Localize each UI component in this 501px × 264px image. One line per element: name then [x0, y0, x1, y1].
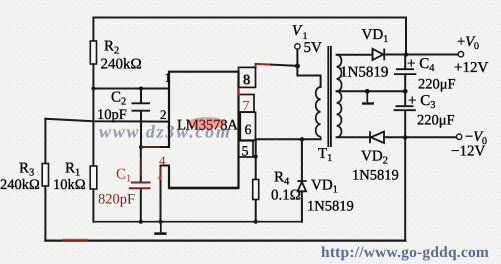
transformer T1 secondary winding upper	[337, 55, 342, 92]
svg-text:+12V: +12V	[454, 60, 488, 76]
node R4 ground junction	[254, 220, 258, 224]
wire pin1 node down to R1	[92, 89, 94, 167]
wire VD2 to -V0 terminal	[384, 136, 456, 138]
pin 5 box	[239, 141, 254, 157]
red artifact near pin4	[158, 176, 161, 179]
svg-text:−12V: −12V	[451, 144, 485, 160]
svg-text:1N5819: 1N5819	[340, 65, 388, 81]
capacitor C3	[394, 106, 416, 110]
svg-text:1N5819: 1N5819	[352, 168, 399, 184]
pin 8 box	[239, 67, 256, 87]
wire C3 bottom to -V0 wire	[404, 111, 406, 138]
red artifact pin8 corner	[256, 64, 271, 67]
red artifact C1 lead	[140, 158, 142, 176]
ground symbol (mid-tap)	[362, 91, 374, 103]
wire top rail right drop	[405, 18, 407, 55]
red artifact pin4 wire	[160, 167, 162, 180]
red artifact bottom rail smudge	[62, 239, 88, 241]
terminal V1	[295, 44, 300, 49]
IC U1 LM3578A box	[169, 72, 239, 188]
svg-text:8: 8	[243, 73, 250, 88]
wire R4 to ground rail	[255, 200, 257, 222]
node mid-tap junction	[403, 89, 408, 94]
wire C2 top lead	[140, 89, 142, 103]
wire C3 top lead	[404, 91, 406, 105]
node pin4 ground junction	[159, 220, 163, 224]
node C1 ground junction	[139, 220, 143, 224]
wire input node to primary top	[297, 76, 320, 88]
wire primary bottom	[320, 137, 322, 140]
wire top-left drop to R2	[92, 18, 94, 42]
svg-text:10kΩ: 10kΩ	[53, 177, 86, 193]
wire pin 5 stub	[253, 156, 256, 158]
node mid-tap ground junction	[365, 89, 370, 94]
wire output return drop	[404, 137, 406, 240]
node OSC junction	[139, 145, 143, 149]
svg-text:240kΩ: 240kΩ	[101, 57, 142, 73]
diode VD3	[373, 49, 385, 61]
node pin5 junction	[254, 155, 258, 159]
svg-text:10pF: 10pF	[97, 107, 127, 123]
wire pin 3	[141, 146, 169, 148]
node +12V junction	[404, 52, 408, 56]
svg-text:220μF: 220μF	[418, 77, 456, 93]
wire pin 1	[93, 88, 169, 90]
node -V0 junction	[403, 135, 407, 139]
transformer T1 secondary winding lower	[337, 91, 342, 137]
svg-text:http://www.go-gddq.com: http://www.go-gddq.com	[321, 244, 489, 261]
red mark on LM3578A	[188, 117, 226, 129]
wire pin 6 to primary bottom	[256, 138, 321, 140]
pin 7 box	[239, 95, 255, 113]
wire C2 bottom to OSC node	[140, 112, 142, 147]
svg-text:220μF: 220μF	[417, 113, 455, 129]
wire bottom rail	[45, 240, 405, 242]
wire R3 to bottom rail	[44, 186, 46, 241]
svg-text:1N5819: 1N5819	[307, 199, 354, 215]
node input junction	[295, 64, 300, 69]
wire mid-tap	[337, 90, 406, 92]
wire V1 terminal down	[296, 49, 298, 75]
svg-text:820pF: 820pF	[98, 192, 135, 208]
capacitor C4	[394, 69, 416, 74]
capacitor C1 (red)	[129, 183, 151, 189]
node VD1 top junction	[300, 137, 304, 141]
capacitor C2	[132, 103, 151, 110]
resistor R4	[253, 180, 259, 200]
resistor R1	[90, 166, 97, 189]
transformer T1 primary winding	[316, 87, 321, 137]
wire R2 bottom to pin1 node	[92, 64, 94, 89]
resistor R3	[42, 164, 48, 187]
svg-text:1: 1	[165, 70, 172, 85]
wire pin 8 to input node	[256, 64, 298, 68]
svg-text:5V: 5V	[304, 40, 323, 56]
terminal -V0	[456, 134, 461, 139]
diode VD1	[297, 181, 306, 191]
terminal +V0	[458, 52, 463, 57]
wire inner ground rail	[93, 221, 302, 223]
svg-text:7: 7	[243, 99, 250, 114]
wire VD3 to +V0 terminal	[384, 54, 458, 56]
svg-text:240kΩ: 240kΩ	[0, 177, 40, 193]
wire C1 to ground rail	[140, 189, 142, 221]
wire VD1 bottom to ground rail	[301, 191, 303, 221]
wire VD1 top	[301, 139, 303, 181]
node pin1/R2 junction	[91, 87, 95, 91]
wire pin 4 to ground	[161, 166, 170, 222]
svg-text:2: 2	[160, 107, 167, 122]
pin 6 box	[240, 112, 255, 140]
IC bottom edge thick	[169, 187, 239, 190]
svg-text:5: 5	[242, 145, 249, 160]
wire top rail	[93, 17, 406, 19]
diode VD2	[370, 131, 384, 143]
wire pin6 corner down to pin5 node	[255, 139, 257, 156]
ground symbol (pin 4)	[154, 222, 166, 234]
svg-text:4: 4	[159, 153, 166, 168]
wire R1 to inner ground rail	[92, 189, 94, 222]
red artifact pin3 wire	[141, 146, 160, 148]
svg-text:6: 6	[245, 123, 252, 138]
wire OSC node to C1	[140, 147, 142, 182]
svg-text:0.1Ω: 0.1Ω	[271, 188, 301, 204]
wire pin5 node to R4	[255, 157, 257, 180]
resistor R2	[90, 41, 96, 64]
wire pin 2	[45, 119, 169, 122]
wire secondary top to VD3	[337, 54, 373, 56]
wire secondary bottom to VD2	[337, 136, 370, 138]
wire pin2 corner down to R3	[44, 119, 46, 164]
wire C4 bottom to mid node	[404, 75, 406, 91]
wire C4 top lead	[404, 55, 406, 69]
node C2 top junction	[139, 87, 143, 91]
transformer core	[328, 46, 331, 147]
red artifact IC right edge	[238, 88, 240, 96]
